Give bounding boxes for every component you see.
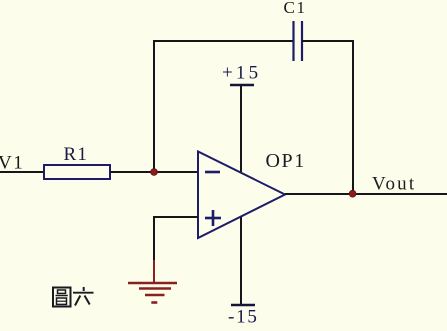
power -15 xyxy=(228,217,259,328)
wire xyxy=(285,193,447,195)
wire xyxy=(302,40,354,42)
wire xyxy=(153,40,293,42)
wire xyxy=(0,171,45,173)
svg-text:V1: V1 xyxy=(0,153,24,174)
power +15 xyxy=(222,63,261,174)
svg-text:+15: +15 xyxy=(222,63,261,84)
wire xyxy=(352,41,354,194)
node B xyxy=(349,190,356,197)
wire xyxy=(110,171,198,173)
wire xyxy=(153,41,155,172)
op-amp OP1 xyxy=(198,152,285,239)
svg-text:C1: C1 xyxy=(284,0,307,17)
svg-text:OP1: OP1 xyxy=(266,150,306,172)
svg-text:-15: -15 xyxy=(228,307,259,328)
label figure caption 圖六 xyxy=(53,287,94,307)
node A xyxy=(151,169,158,176)
wire xyxy=(153,216,198,218)
resistor R1 xyxy=(44,165,110,179)
capacitor C1 xyxy=(294,21,303,61)
ground xyxy=(128,260,177,303)
wire xyxy=(153,216,155,262)
svg-text:R1: R1 xyxy=(64,144,89,165)
svg-text:Vout: Vout xyxy=(372,174,416,195)
